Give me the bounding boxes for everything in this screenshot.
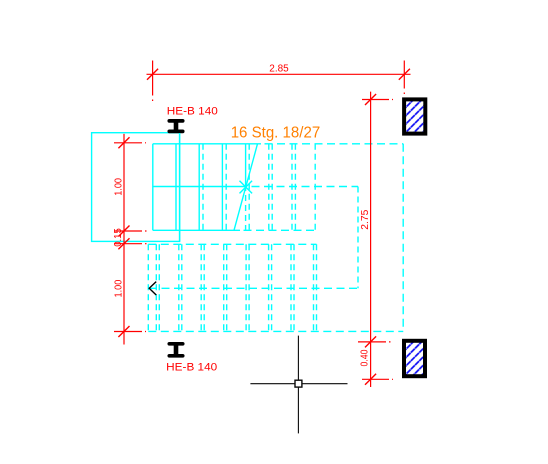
extension line at stair bottom	[114, 331, 146, 333]
steel beam symbol bottom	[169, 344, 182, 356]
insertion point crosshair horizontal	[250, 383, 347, 385]
upper flight hidden nosing line 2	[202, 144, 204, 231]
stair top edge solid segment	[153, 143, 261, 145]
extension line at column top	[362, 99, 393, 101]
walk line upper hidden	[252, 186, 359, 188]
walk line lower hidden	[149, 287, 358, 289]
walk line start arrow	[149, 282, 156, 295]
insertion point crosshair vertical	[297, 336, 299, 434]
stair well bottom edge	[148, 330, 403, 332]
dimension 2.85 right tick	[399, 69, 410, 80]
upper flight hidden nosing line 5	[271, 144, 273, 231]
svg-text:16 Stg. 18/27: 16 Stg. 18/27	[231, 125, 321, 142]
left chain tick 4	[118, 326, 129, 337]
landing slab outline	[92, 133, 180, 242]
dimension 2.85 left tick	[147, 69, 158, 80]
upper flight left edge	[152, 144, 154, 231]
svg-text:1.00: 1.00	[114, 279, 125, 297]
insertion point square	[295, 380, 302, 387]
left chain tick 2	[118, 226, 129, 237]
left chain tick 1	[118, 137, 129, 148]
extension line at flight break lower	[114, 243, 147, 245]
extension line at stair top	[114, 142, 146, 144]
upper flight hidden nosing line 6	[294, 144, 296, 231]
lower flight tread pairs hidden	[156, 244, 316, 331]
dimension 2.85 line	[147, 73, 411, 75]
upper flight right end hidden	[314, 144, 316, 231]
lower flight top edge hidden	[148, 243, 316, 245]
column bottom	[404, 341, 425, 376]
upper flight tread line 4 hidden part	[245, 185, 247, 230]
upper flight tread line 1	[175, 144, 177, 231]
right dim tick middle	[365, 336, 376, 347]
walk line vertical hidden	[357, 187, 359, 289]
extension line right of 2.85	[403, 61, 405, 98]
upper flight tread line 2	[198, 144, 200, 231]
left dimension chain line	[123, 134, 125, 345]
upper flight bottom edge solid	[153, 229, 240, 231]
lower flight left edge hidden	[147, 244, 149, 331]
svg-text:0.40: 0.40	[359, 349, 370, 366]
cut line diagonal	[234, 144, 258, 231]
upper flight hidden tread line 6	[291, 144, 293, 231]
svg-text:HE-B 140: HE-B 140	[167, 105, 218, 117]
upper flight bottom edge hidden	[244, 229, 316, 231]
right dimension line	[370, 92, 372, 387]
upper flight tread line 4 solid part	[245, 144, 247, 185]
upper flight hidden nosing line 3	[225, 144, 227, 231]
extension line left of 2.85	[152, 61, 154, 106]
extension line at lower column bottom	[362, 378, 393, 380]
stair top edge hidden segment	[265, 143, 404, 145]
extension line at lower column top	[358, 341, 393, 343]
left chain tick 3	[118, 238, 129, 249]
svg-text:2.75: 2.75	[360, 209, 371, 229]
svg-text:1.00: 1.00	[114, 178, 125, 196]
upper flight tread line 3	[221, 144, 223, 231]
svg-text:2.85: 2.85	[269, 64, 289, 75]
stair well right edge	[402, 144, 404, 332]
right dim tick top	[365, 94, 376, 105]
upper flight hidden nosing line 4	[248, 144, 250, 231]
upper flight hidden tread line 5	[268, 144, 270, 231]
column top	[404, 99, 425, 133]
svg-text:0.15: 0.15	[113, 228, 124, 247]
cut line cross mark	[240, 181, 253, 194]
beam support line	[179, 133, 181, 241]
right dim tick bottom	[365, 374, 376, 385]
extension line at flight break upper	[114, 230, 147, 232]
svg-text:HE-B 140: HE-B 140	[166, 361, 217, 373]
steel beam symbol top	[169, 121, 182, 131]
walk line upper solid	[153, 186, 246, 188]
